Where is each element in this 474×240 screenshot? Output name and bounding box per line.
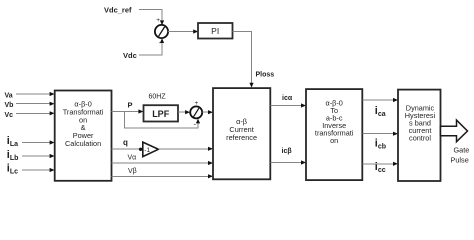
arrowhead into current reference (Vbeta input) (208, 174, 213, 178)
svg-text:Ploss: Ploss (256, 72, 275, 79)
block PI controller (198, 23, 233, 39)
block U1 alpha-beta-0 transformation and power calculation (55, 91, 112, 181)
wire P to LPF (112, 111, 141, 113)
arrowhead into junction top (160, 20, 164, 25)
wire icalpha (270, 105, 302, 107)
svg-text:Calculation: Calculation (65, 139, 101, 148)
wire Vbeta (112, 175, 210, 177)
wire iLb input (22, 155, 51, 157)
svg-text:PI: PI (211, 26, 219, 36)
wire J2 to current reference block (202, 111, 209, 113)
arrowhead into current reference left (p input) (208, 110, 213, 114)
block U4 dynamic hysteresis band current control (398, 90, 441, 181)
wire icbeta (270, 162, 302, 164)
wire Va input (16, 93, 51, 95)
junction dot at gain input (139, 148, 142, 151)
svg-text:Vb: Vb (5, 102, 14, 109)
svg-text:icα: icα (282, 95, 293, 102)
arrowhead into junction bottom (160, 38, 164, 43)
wire icc (362, 163, 394, 165)
wire Vb input (16, 103, 51, 105)
gate pulse block arrow (441, 120, 468, 142)
block LPF low pass filter (144, 105, 179, 121)
svg-text:Vβ: Vβ (128, 168, 137, 175)
arrowhead into hysteresis block (ica) (393, 98, 398, 102)
wire PI to current reference block (Ploss) (233, 32, 252, 85)
wire Vc input (16, 112, 51, 114)
wire Valpha (112, 162, 210, 164)
svg-text:reference: reference (226, 133, 257, 142)
wire J1 to PI (168, 31, 194, 33)
block U3 alpha-beta-0 to a-b-c inverse transformation (306, 89, 362, 180)
arrowhead into hysteresis block (icc) (393, 162, 398, 166)
wire iLa input (22, 142, 51, 144)
arrowhead into current reference top (249, 83, 253, 88)
svg-text:on: on (330, 136, 338, 145)
svg-text:Pulse: Pulse (451, 155, 469, 164)
arrowhead into LPF (138, 109, 143, 113)
svg-text:Vdc_ref: Vdc_ref (104, 6, 132, 15)
arrowhead into current reference (Valpha input) (208, 161, 213, 165)
block U2 alpha-beta current reference (213, 88, 270, 179)
arrowhead into inverse transformation (icbeta) (301, 160, 306, 164)
arrowhead into inverse transformation (icalpha) (301, 103, 306, 107)
svg-text:Vα: Vα (128, 155, 137, 162)
wire ica (362, 99, 394, 101)
svg-text:control: control (409, 133, 431, 142)
arrowhead into current reference (q input) (208, 147, 213, 151)
wire LPF to junction J2 (178, 111, 187, 113)
svg-text:60HZ: 60HZ (149, 93, 167, 100)
svg-text:LPF: LPF (152, 109, 170, 119)
summing junction J1 (155, 25, 168, 38)
gain -1 triangle (143, 142, 159, 157)
svg-text:icβ: icβ (282, 148, 293, 155)
svg-text:Vc: Vc (5, 112, 14, 119)
wire iLc input (22, 169, 51, 171)
svg-text:Vdc: Vdc (123, 51, 137, 60)
arrowhead into J2 bottom (196, 119, 200, 124)
svg-text:q: q (123, 138, 128, 147)
wire icb (362, 133, 394, 135)
svg-text:Gate: Gate (454, 146, 470, 155)
wire P bypass to junction J2 bottom (125, 112, 199, 128)
wire Vdc to summing junction (139, 40, 162, 55)
summing junction J2 (190, 106, 202, 118)
arrowhead into hysteresis block (icb) (393, 132, 398, 136)
arrowhead into J2 left (185, 110, 190, 114)
arrowhead into PI (193, 29, 198, 33)
svg-text:+: + (156, 17, 160, 24)
svg-text:P: P (128, 101, 133, 110)
wire gain to current reference (q input) (158, 148, 209, 150)
svg-text:Va: Va (5, 93, 13, 100)
svg-text:-1: -1 (144, 147, 150, 154)
wire Vdc_ref to summing junction (139, 10, 162, 24)
wire q to gain (112, 148, 141, 150)
